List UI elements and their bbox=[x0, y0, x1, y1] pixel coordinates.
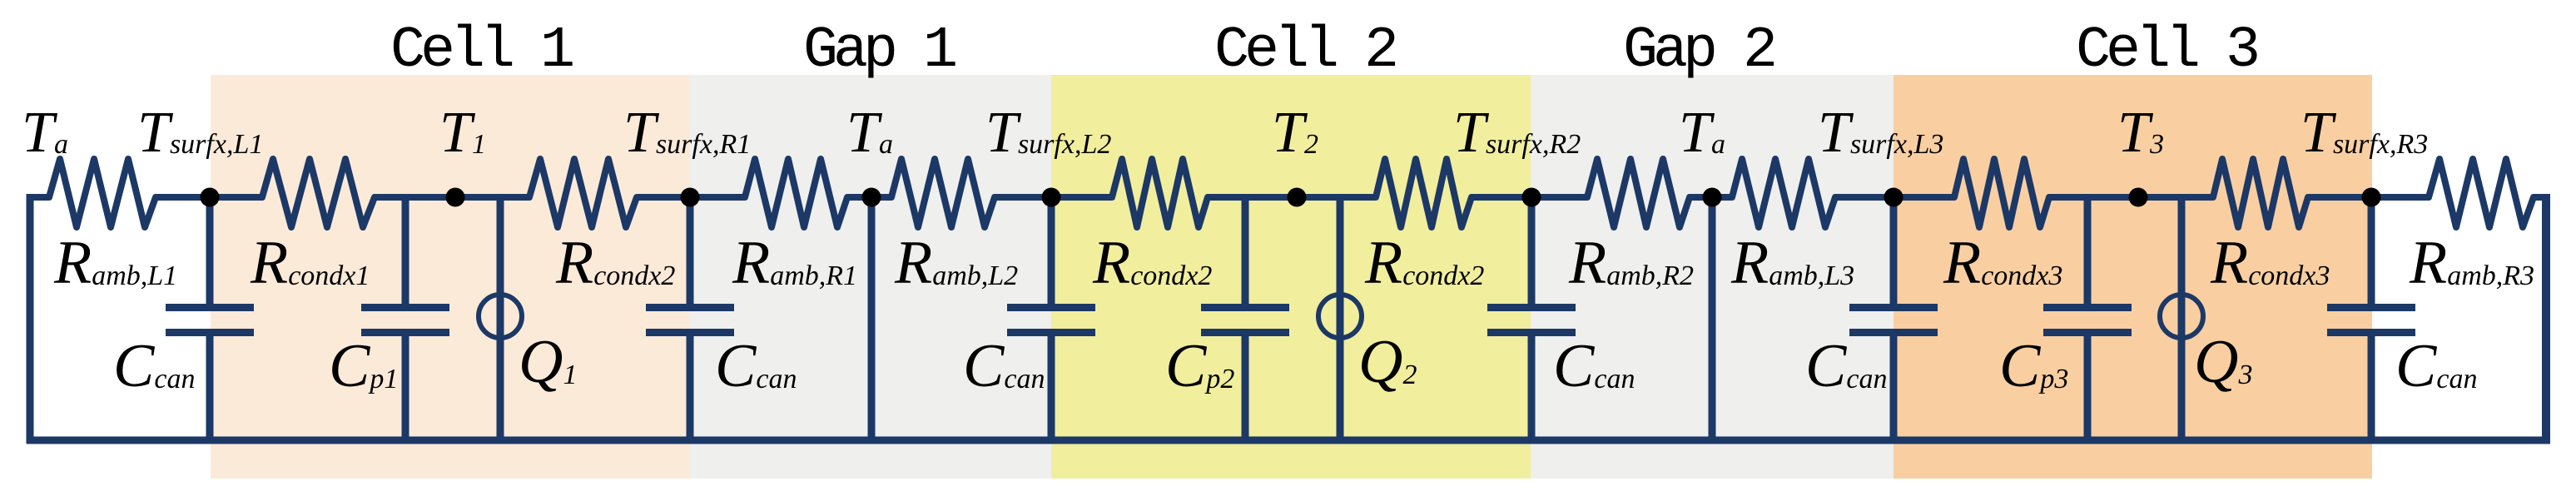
resistor R_amb,L3 bbox=[1725, 159, 1842, 227]
node T_surfx,R3 junction bbox=[2362, 188, 2381, 207]
svg-text:Cell 3: Cell 3 bbox=[2076, 18, 2257, 84]
resistor R_amb,R1 bbox=[738, 159, 854, 227]
capacitor C_can at T_surfx,R2 bbox=[1487, 194, 1576, 444]
wire top rail segment 2 bbox=[156, 194, 262, 201]
node T_surfx,L3 junction bbox=[1884, 188, 1903, 207]
svg-text:Cell 1: Cell 1 bbox=[390, 18, 573, 84]
resistor R_amb,R3 bbox=[2422, 159, 2540, 227]
node T_a mid2 junction bbox=[1703, 188, 1722, 207]
wire top rail segment 10 bbox=[1835, 194, 1954, 201]
capacitor C_p2 bbox=[1201, 194, 1289, 444]
wire top rail segment 6 bbox=[995, 194, 1112, 201]
resistor R_amb,R2 bbox=[1581, 159, 1696, 227]
node T_2 junction bbox=[1288, 188, 1307, 207]
node T_surfx,L2 junction bbox=[1042, 188, 1061, 207]
wire right ambient branch (T_a to bottom rail) bbox=[2542, 194, 2550, 444]
resistor R_condx2 (Cell2 left) bbox=[1105, 159, 1214, 227]
capacitor C_can at T_surfx,R1 bbox=[646, 194, 734, 444]
region band Gap 2 bbox=[1531, 75, 1894, 479]
svg-text:Gap 2: Gap 2 bbox=[1623, 18, 1774, 84]
wire top rail segment 7 bbox=[1208, 194, 1376, 201]
resistor R_condx2 (Cell1) bbox=[523, 159, 643, 227]
wire top rail segment 4 bbox=[637, 194, 745, 201]
wire top rail segment 8 bbox=[1472, 194, 1587, 201]
capacitor C_can at T_surfx,L1 bbox=[166, 194, 254, 444]
node T_1 junction bbox=[446, 188, 465, 207]
wire T_a ambient branch (Gap 2) bbox=[1709, 201, 1716, 440]
region band Gap 1 bbox=[690, 75, 1051, 479]
capacitor C_p1 bbox=[361, 194, 449, 444]
resistor R_condx2 (Cell2 right) bbox=[1369, 159, 1478, 227]
node T_surfx,R1 junction bbox=[681, 188, 700, 207]
current source Q2 (heat generation) bbox=[1318, 194, 1362, 444]
node T_3 junction bbox=[2129, 188, 2148, 207]
region band Cell 2 bbox=[1051, 75, 1531, 479]
wire top rail segment 3 bbox=[375, 194, 529, 201]
svg-text:Gap 1: Gap 1 bbox=[803, 18, 955, 84]
wire top rail segment 5 bbox=[847, 194, 891, 201]
wire bottom ambient rail bbox=[27, 437, 2550, 444]
wire left ambient branch (T_a to bottom rail) bbox=[27, 194, 34, 444]
resistor R_condx1 bbox=[256, 159, 381, 227]
resistor R_condx3 (Cell3 left) bbox=[1948, 159, 2056, 227]
region band Cell 3 bbox=[1894, 75, 2372, 479]
capacitor C_can at T_surfx,R3 bbox=[2327, 194, 2415, 444]
capacitor C_p3 bbox=[2043, 194, 2132, 444]
wire T_a ambient branch (Gap 1) bbox=[868, 201, 876, 440]
svg-text:Cell 2: Cell 2 bbox=[1214, 18, 1396, 84]
wire top rail segment 9 bbox=[1690, 194, 1732, 201]
region band Cell 1 bbox=[211, 75, 690, 479]
node T_surfx,R2 junction bbox=[1522, 188, 1541, 207]
node T_a mid1 junction bbox=[862, 188, 881, 207]
resistor R_amb,L1 bbox=[42, 159, 162, 227]
current source Q1 (heat generation) bbox=[479, 194, 522, 444]
node T_surfx,L1 junction bbox=[201, 188, 220, 207]
wire top rail segment 11 bbox=[2049, 194, 2213, 201]
current source Q3 (heat generation) bbox=[2160, 194, 2203, 444]
wire top rail segment 13 bbox=[2534, 194, 2550, 201]
capacitor C_can at T_surfx,L3 bbox=[1849, 194, 1938, 444]
wire top rail segment 1 bbox=[27, 194, 49, 201]
resistor R_amb,L2 bbox=[885, 159, 1001, 227]
capacitor C_can at T_surfx,L2 bbox=[1007, 194, 1095, 444]
resistor R_condx3 (Cell3 right) bbox=[2206, 159, 2315, 227]
wire top rail segment 12 bbox=[2308, 194, 2429, 201]
